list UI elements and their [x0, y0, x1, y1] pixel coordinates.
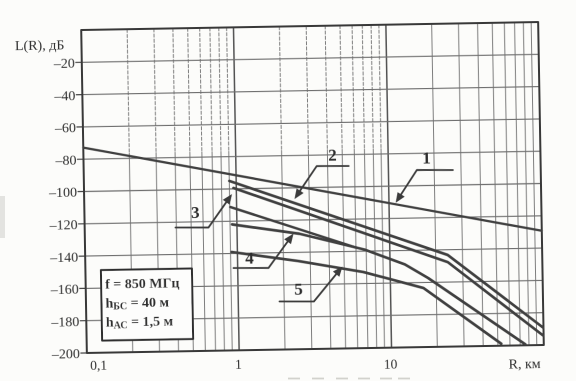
- svg-text:–160: –160: [50, 283, 79, 299]
- curve 3a short branch merging into curve 4: [230, 205, 356, 250]
- major vertical gridlines R=1 and R=10: [233, 25, 391, 351]
- legend box: [101, 269, 193, 341]
- label 5 leader: [279, 269, 341, 303]
- svg-text:L(R), дБ: L(R), дБ: [15, 38, 65, 54]
- svg-text:–120: –120: [49, 218, 78, 234]
- label 1 leader: [397, 169, 454, 200]
- svg-text:–40: –40: [53, 89, 75, 104]
- svg-text:–100: –100: [48, 186, 77, 202]
- svg-text:1: 1: [422, 148, 431, 167]
- svg-text:–140: –140: [49, 250, 78, 266]
- svg-text:3: 3: [191, 203, 200, 222]
- horizontal gridlines every 20 dB: [82, 54, 543, 320]
- y axis tick labels: [46, 57, 80, 363]
- svg-text:–80: –80: [54, 154, 76, 169]
- curve 2: [229, 176, 543, 333]
- svg-text:10: 10: [384, 357, 398, 372]
- label 4 leader: [233, 236, 292, 269]
- curve 5: [232, 247, 502, 348]
- svg-text:–20: –20: [53, 57, 75, 72]
- svg-text:R, км: R, км: [508, 357, 540, 373]
- svg-text:f = 850 МГц: f = 850 МГц: [105, 276, 180, 292]
- svg-text:–200: –200: [51, 347, 80, 363]
- svg-text:0,1: 0,1: [90, 358, 107, 373]
- svg-text:1: 1: [235, 357, 242, 372]
- scan smudge left edge: [0, 196, 5, 238]
- svg-text:–180: –180: [50, 315, 79, 331]
- curve 4: [232, 219, 525, 349]
- svg-text:–60: –60: [54, 121, 76, 136]
- label 2 leader: [296, 165, 350, 196]
- curve 1 free-space line: [83, 140, 542, 239]
- svg-text:4: 4: [245, 249, 254, 268]
- scan noise bottom: [288, 378, 410, 380]
- svg-text:5: 5: [294, 280, 303, 299]
- plot box frame: [81, 22, 544, 353]
- label 3 leader: [175, 196, 231, 228]
- axis ticks left of box: [76, 62, 87, 353]
- curve 3: [233, 183, 543, 341]
- minor vertical gridlines (log scale): [127, 22, 537, 352]
- svg-text:2: 2: [328, 146, 337, 165]
